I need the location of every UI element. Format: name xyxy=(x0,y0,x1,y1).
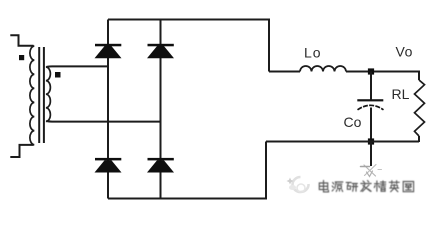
wire capacitor bottom lead xyxy=(370,108,372,142)
polarity dot secondary xyxy=(55,72,61,78)
svg-text:RL: RL xyxy=(392,86,410,102)
node junction bottom xyxy=(368,138,374,144)
transformer T1 core xyxy=(39,47,44,143)
polarity dot primary xyxy=(19,55,24,60)
wire secondary bottom lead xyxy=(47,120,161,123)
diode D1 xyxy=(95,44,122,58)
node junction top xyxy=(368,68,374,74)
ground sparkle mark xyxy=(361,165,382,177)
svg-text:Co: Co xyxy=(344,114,362,130)
wire bottom rail xyxy=(108,142,266,199)
inductor Lo xyxy=(300,66,346,72)
wire ground stub xyxy=(370,142,372,167)
resistor RL xyxy=(415,80,425,136)
diode D2 xyxy=(147,44,174,58)
svg-text:Lo: Lo xyxy=(304,45,322,61)
capacitor Co xyxy=(357,99,383,110)
wire left bridge branch xyxy=(107,20,109,199)
diode D3 xyxy=(95,158,122,173)
wire bottom output xyxy=(266,141,419,143)
wire right bridge branch xyxy=(160,20,162,199)
transformer T1 secondary winding xyxy=(46,67,51,121)
diode D4 xyxy=(147,158,174,173)
wire Lo to RL xyxy=(346,72,419,81)
wire secondary top lead xyxy=(47,65,109,67)
transformer T1 primary winding xyxy=(30,46,34,145)
wire primary bottom lead xyxy=(10,145,33,157)
wire capacitor top lead xyxy=(370,72,372,100)
watermark logo xyxy=(287,177,309,192)
wire primary top lead xyxy=(10,35,33,46)
wire RL bottom lead xyxy=(418,136,420,142)
svg-text:Vo: Vo xyxy=(396,44,413,60)
wire top rail xyxy=(108,20,269,72)
wire output top left xyxy=(269,71,300,73)
watermark text 电源研发精英圈 xyxy=(319,181,413,192)
